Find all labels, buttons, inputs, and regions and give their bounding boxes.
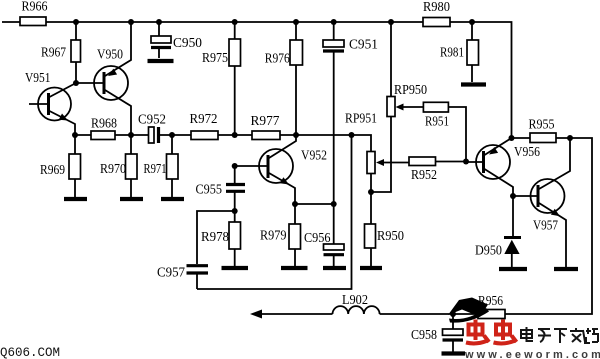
watermark logo black swoosh — [448, 298, 488, 318]
potentiometer RP950 — [387, 22, 427, 117]
resistor R978 — [201, 211, 241, 266]
svg-text:C955: C955 — [196, 183, 223, 198]
transistor V957 — [513, 138, 570, 267]
resistor R977 — [251, 114, 281, 140]
svg-text:L902: L902 — [342, 293, 368, 308]
node V952 base tap — [232, 163, 238, 169]
svg-text:R969: R969 — [40, 163, 65, 178]
node R955 right junction — [567, 135, 573, 141]
wire feedback line from mid rail to bottom — [197, 135, 352, 289]
capacitor C956 — [304, 204, 344, 266]
resistor R979 — [260, 204, 301, 266]
resistor R967 — [41, 22, 81, 83]
svg-text:R979: R979 — [260, 229, 287, 244]
resistor R955 — [512, 118, 571, 143]
svg-text:R977: R977 — [251, 114, 280, 129]
svg-text:C957: C957 — [157, 266, 185, 281]
potentiometer RP951 — [345, 112, 377, 193]
resistor R980 — [423, 0, 450, 27]
node V956 base junction — [463, 159, 469, 165]
watermark red bug characters — [466, 320, 517, 344]
watermark text dianzi xiazaizhan — [521, 327, 598, 343]
capacitor C958 — [411, 314, 463, 352]
svg-text:V957: V957 — [533, 219, 558, 234]
svg-text:C952: C952 — [138, 113, 166, 128]
svg-text:R978: R978 — [201, 230, 229, 245]
node V956 collector / R955 left — [509, 135, 515, 141]
wire mid rail — [75, 135, 371, 152]
ground below R978 — [222, 266, 249, 270]
node top rail junctions — [73, 19, 475, 25]
wiper arrow RP950 — [396, 104, 424, 111]
svg-text:R976: R976 — [265, 52, 290, 67]
svg-text:C956: C956 — [304, 231, 331, 246]
resistor R951 — [423, 102, 466, 161]
inductor L902 — [333, 293, 380, 314]
svg-text:V950: V950 — [97, 48, 123, 63]
svg-text:V956: V956 — [514, 145, 540, 160]
ground below R971 — [161, 197, 184, 201]
wiper arrow RP951 — [376, 159, 409, 166]
svg-text:R971: R971 — [144, 162, 167, 177]
node base of V950 — [73, 80, 79, 86]
resistor R975 — [202, 22, 241, 135]
transistor V956 — [466, 138, 540, 196]
transistor V951 — [25, 71, 75, 135]
resistor R952 — [409, 157, 466, 183]
transistor V952 — [235, 135, 327, 204]
ground below R979 — [281, 266, 308, 270]
ground below V957 — [554, 267, 578, 271]
capacitor C951 — [323, 22, 378, 204]
resistor R968 — [91, 117, 117, 140]
svg-text:Q606.COM: Q606.COM — [0, 346, 60, 359]
wire junction to C957 — [197, 211, 235, 264]
resistor R956 — [478, 294, 505, 319]
node RP951/R950/RP950 junction — [368, 189, 374, 195]
resistor R969 — [40, 135, 81, 197]
svg-text:C950: C950 — [173, 36, 202, 51]
resistor R950 — [365, 192, 405, 266]
capacitor C957 — [157, 266, 208, 290]
node V957 base junction — [510, 193, 516, 199]
wire bottom output line with arrow — [258, 313, 478, 315]
node C958 junction — [450, 311, 456, 317]
svg-text:R968: R968 — [91, 117, 117, 132]
svg-text:R952: R952 — [411, 168, 437, 183]
wire right side down to R956 — [505, 138, 592, 314]
resistor R966 — [20, 17, 46, 26]
ground below C950 — [148, 59, 174, 63]
svg-text:R951: R951 — [425, 115, 449, 130]
ground below R950 — [360, 266, 382, 270]
resistor R971 — [144, 135, 179, 197]
ground below R970 — [120, 197, 143, 201]
svg-text:R967: R967 — [41, 46, 66, 61]
node mid rail junctions — [72, 132, 355, 138]
svg-text:R972: R972 — [190, 112, 218, 127]
svg-text:RP950: RP950 — [394, 83, 427, 98]
ground below R969 — [64, 197, 87, 201]
resistor R970 — [100, 135, 137, 197]
node C955/R978/C957 junction — [232, 208, 238, 214]
transistor V950 — [76, 22, 131, 135]
svg-text:www.eeworm.com: www.eeworm.com — [464, 349, 600, 359]
svg-text:R966: R966 — [22, 0, 48, 15]
svg-text:C958: C958 — [411, 328, 437, 343]
svg-text:D950: D950 — [475, 244, 502, 259]
capacitor C950 — [151, 22, 202, 58]
ground below D950 — [499, 267, 527, 271]
svg-text:RP951: RP951 — [345, 112, 377, 127]
svg-text:R950: R950 — [377, 229, 404, 244]
capacitor C952 — [138, 113, 166, 144]
svg-text:R981: R981 — [440, 46, 464, 61]
resistor R972 — [190, 112, 219, 140]
svg-text:C951: C951 — [349, 38, 378, 53]
svg-text:R980: R980 — [423, 0, 450, 15]
svg-text:R955: R955 — [529, 118, 555, 133]
wire emitter node of V952 — [295, 203, 334, 205]
diode D950 — [475, 196, 521, 267]
svg-text:R975: R975 — [202, 51, 228, 66]
ground below C956 — [323, 266, 346, 270]
ground below R981 — [461, 82, 486, 86]
resistor R976 — [265, 22, 303, 135]
svg-text:V951: V951 — [25, 71, 51, 86]
capacitor C955 — [196, 166, 246, 211]
wire junction to RP950 bottom — [371, 117, 391, 193]
wire top supply rail — [2, 22, 512, 138]
ground below C958 — [442, 351, 466, 355]
svg-text:V952: V952 — [301, 149, 327, 164]
svg-text:R970: R970 — [100, 162, 126, 177]
resistor R981 — [440, 22, 479, 82]
